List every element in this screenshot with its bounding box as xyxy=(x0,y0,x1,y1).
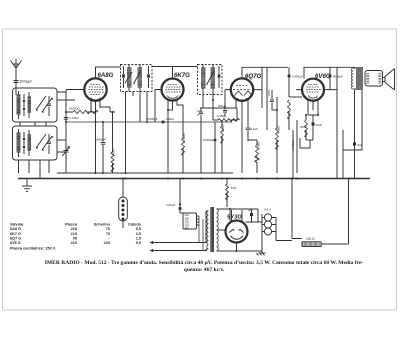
svg-text:8000µF: 8000µF xyxy=(333,75,343,79)
svg-text:100 Ω: 100 Ω xyxy=(306,237,315,241)
svg-text:215: 215 xyxy=(71,232,77,236)
svg-text:10000µF: 10000µF xyxy=(203,138,214,142)
svg-text:25µF: 25µF xyxy=(316,123,323,127)
svg-text:5000µF: 5000µF xyxy=(96,138,106,142)
svg-text:210: 210 xyxy=(71,241,77,245)
svg-text:1,5: 1,5 xyxy=(136,236,141,240)
svg-text:220: 220 xyxy=(104,241,110,245)
svg-text:70: 70 xyxy=(106,227,110,231)
svg-text:1MΩA: 1MΩA xyxy=(166,117,174,121)
svg-text:50000Ω: 50000Ω xyxy=(69,107,80,111)
svg-text:6V6 G: 6V6 G xyxy=(10,241,21,245)
svg-text:10000µF: 10000µF xyxy=(146,117,158,121)
svg-text:1000µµF: 1000µµF xyxy=(20,80,33,84)
svg-text:0,05µF: 0,05µF xyxy=(166,203,176,207)
svg-text:6Q7 G: 6Q7 G xyxy=(10,236,21,240)
svg-text:Catodo: Catodo xyxy=(128,223,142,227)
svg-text:4,5 V: 4,5 V xyxy=(264,208,271,212)
svg-text:0.25MΩ: 0.25MΩ xyxy=(182,133,186,143)
svg-text:0.1µF: 0.1µF xyxy=(251,127,259,131)
svg-text:–: – xyxy=(108,236,110,240)
svg-text:0,5: 0,5 xyxy=(136,227,141,231)
svg-text:5Y3G: 5Y3G xyxy=(227,215,242,221)
svg-text:6V6G: 6V6G xyxy=(315,73,331,80)
svg-text:6K7 G: 6K7 G xyxy=(10,232,21,236)
svg-text:6A8G: 6A8G xyxy=(98,72,114,79)
svg-text:quenza: 467 kc/s.: quenza: 467 kc/s. xyxy=(184,267,225,273)
svg-text:2,5: 2,5 xyxy=(136,232,141,236)
svg-text:215: 215 xyxy=(71,227,77,231)
svg-text:6A8 G: 6A8 G xyxy=(10,227,21,231)
svg-text:95: 95 xyxy=(73,236,77,240)
svg-text:IMER RADIO - Mod. 512 - Tre ga: IMER RADIO - Mod. 512 - Tre gamme d’onda… xyxy=(45,260,364,266)
svg-text:0.5MΩ: 0.5MΩ xyxy=(217,114,226,118)
svg-text:6K7G: 6K7G xyxy=(174,72,190,79)
svg-text:110: 110 xyxy=(185,226,190,230)
svg-text:0.1Mµf: 0.1Mµf xyxy=(70,116,79,120)
svg-text:0.5MΩA: 0.5MΩA xyxy=(291,140,295,150)
svg-text:Placca oscillatrice: 150 V.: Placca oscillatrice: 150 V. xyxy=(10,246,56,250)
svg-text:0.003µF: 0.003µF xyxy=(292,75,303,79)
svg-text:70: 70 xyxy=(106,232,110,236)
svg-text:200µF: 200µF xyxy=(218,104,226,108)
svg-text:Schermo: Schermo xyxy=(94,223,111,227)
svg-text:50Ω: 50Ω xyxy=(231,186,237,190)
svg-text:Valvola: Valvola xyxy=(10,223,24,227)
svg-text:µF: µF xyxy=(197,113,201,117)
svg-text:1MΩ: 1MΩ xyxy=(267,90,271,96)
svg-text:Placca: Placca xyxy=(65,223,78,227)
svg-text:6Q7G: 6Q7G xyxy=(245,73,262,80)
svg-text:250Ω: 250Ω xyxy=(300,125,307,129)
svg-text:2µF: 2µF xyxy=(248,208,253,212)
svg-text:9,5: 9,5 xyxy=(136,241,141,245)
